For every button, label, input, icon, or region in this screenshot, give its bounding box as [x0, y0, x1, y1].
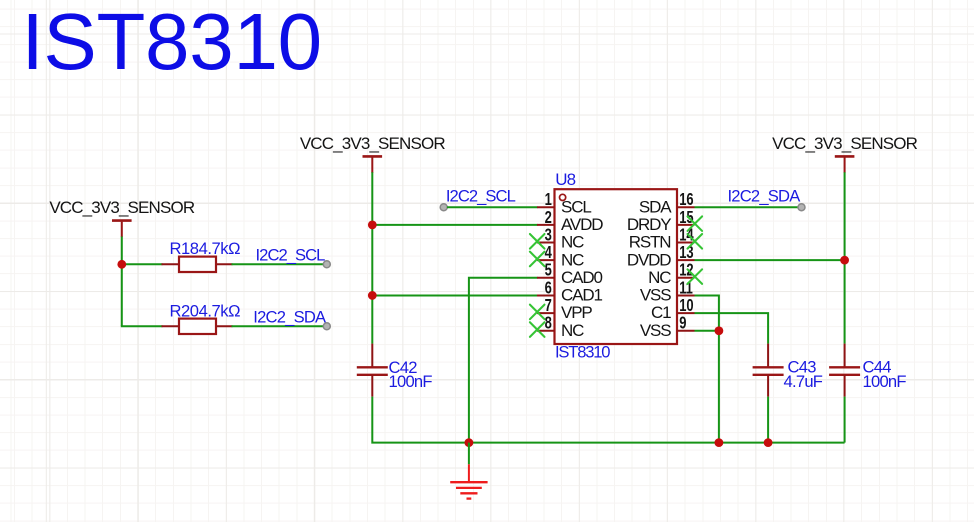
no-connect X at left pin 3: [530, 234, 545, 249]
svg-text:15: 15: [679, 208, 694, 228]
svg-text:RSTN: RSTN: [629, 233, 671, 252]
wire corner to R20 left lead: [121, 325, 163, 327]
unconnected pin dot I2C2_SDA (left): [323, 323, 330, 330]
svg-text:2: 2: [545, 208, 552, 228]
unconnected pin dot I2C2_SCL (left): [323, 261, 330, 268]
svg-text:I2C2_SDA: I2C2_SDA: [728, 187, 802, 206]
no-connect X at right pin 14: [688, 234, 703, 249]
pin 6 (CAD1) left stub: [537, 294, 555, 296]
svg-text:R204.7kΩ: R204.7kΩ: [170, 301, 241, 320]
svg-text:R184.7kΩ: R184.7kΩ: [170, 239, 241, 258]
pin 7 (VPP) left stub: [537, 312, 555, 314]
resistor R18 4.7k: [162, 257, 233, 272]
pin 8 (NC) left stub: [537, 330, 555, 332]
svg-text:AVDD: AVDD: [561, 215, 603, 234]
junction VSS pin9: [715, 326, 724, 335]
op-amp/ic U8 IST8310 body: [555, 189, 678, 344]
svg-text:100nF: 100nF: [389, 372, 433, 391]
svg-text:VCC_3V3_SENSOR: VCC_3V3_SENSOR: [772, 134, 918, 153]
svg-text:C1: C1: [651, 303, 671, 322]
svg-text:VSS: VSS: [640, 286, 671, 305]
svg-text:NC: NC: [648, 268, 671, 287]
svg-text:SDA: SDA: [639, 197, 672, 216]
wire pin9 VSS to pin11 vertical: [695, 330, 719, 332]
svg-text:100nF: 100nF: [863, 372, 907, 391]
wire VCC middle vertical down to C42: [371, 172, 373, 343]
junction ground rail / CAD0 / GND: [465, 438, 474, 447]
power flag VCC_3V3_SENSOR (right): [772, 134, 918, 173]
ground: [450, 443, 487, 499]
svg-text:7: 7: [545, 296, 552, 316]
wire pin2 AVDD from VCC vertical: [372, 224, 537, 226]
wire C44 bottom to ground rail corner: [844, 397, 846, 443]
wire R20 to I2C2_SDA stub: [232, 325, 325, 327]
resistor R20 4.7k: [162, 319, 233, 334]
pin 15 (DRDY) right stub: [677, 224, 695, 226]
svg-text:I2C2_SCL: I2C2_SCL: [446, 187, 516, 206]
wire R18 to I2C2_SCL stub: [232, 263, 325, 265]
svg-text:IST8310: IST8310: [22, 0, 322, 86]
pin 10 (C1) right stub: [677, 312, 695, 314]
junction VCC/CAD1: [368, 291, 377, 300]
no-connect X at left pin 8: [530, 322, 545, 337]
wire pin6 CAD1 from VCC vertical: [372, 294, 537, 296]
pin 14 (RSTN) right stub: [677, 242, 695, 244]
wire junction to R18 left lead: [122, 263, 163, 265]
svg-text:I2C2_SCL: I2C2_SCL: [256, 245, 326, 264]
svg-text:4.7uF: 4.7uF: [784, 372, 823, 391]
wire VCC right vertical down to C44: [844, 172, 846, 343]
no-connect X at right pin 12: [688, 269, 703, 284]
svg-text:5: 5: [545, 261, 552, 281]
pin 5 (CAD0) left stub: [537, 277, 555, 279]
capacitor C43 4.7uF: [753, 344, 784, 397]
pin 2 (AVDD) left stub: [537, 224, 555, 226]
capacitor C44 100nF: [829, 344, 860, 397]
svg-text:6: 6: [545, 278, 552, 298]
no-connect X at left pin 4: [530, 252, 545, 267]
svg-text:10: 10: [679, 296, 694, 316]
unconnected pin dot I2C2_SDA (at pin 16): [798, 204, 805, 211]
svg-text:DRDY: DRDY: [627, 215, 671, 234]
pin 16 (SDA) right stub: [677, 206, 695, 208]
svg-text:DVDD: DVDD: [627, 250, 671, 269]
pin 4 (NC) left stub: [537, 259, 555, 261]
svg-text:14: 14: [679, 225, 694, 245]
svg-text:1: 1: [545, 190, 552, 210]
wire pin11 VSS down to ground rail: [695, 295, 719, 442]
svg-text:16: 16: [679, 190, 694, 210]
svg-text:9: 9: [679, 314, 686, 334]
wire pin1 SCL: [447, 206, 538, 208]
svg-text:NC: NC: [561, 321, 584, 340]
svg-text:13: 13: [679, 243, 694, 263]
wire CAD0 vertical: [469, 278, 538, 443]
unconnected pin dot I2C2_SCL (at pin 1): [440, 204, 447, 211]
svg-text:VSS: VSS: [640, 321, 671, 340]
wire pin16 SDA: [695, 206, 799, 208]
svg-text:8: 8: [545, 314, 552, 334]
pin 12 (NC) right stub: [677, 277, 695, 279]
svg-text:VCC_3V3_SENSOR: VCC_3V3_SENSOR: [49, 198, 195, 217]
power flag VCC_3V3_SENSOR (middle): [300, 134, 446, 173]
svg-text:VPP: VPP: [561, 303, 592, 322]
pin 11 (VSS) right stub: [677, 294, 695, 296]
no-connect X at right pin 15: [688, 216, 703, 231]
pin 1 (SCL) left stub: [537, 206, 555, 208]
svg-text:VCC_3V3_SENSOR: VCC_3V3_SENSOR: [300, 134, 446, 153]
svg-text:I2C2_SDA: I2C2_SDA: [253, 307, 327, 326]
wire C42 bottom to ground rail: [372, 397, 469, 443]
capacitor C42 100nF: [357, 344, 388, 397]
pin 9 (VSS) right stub: [677, 330, 695, 332]
wire pin13 DVDD to VCC vertical: [695, 259, 845, 261]
junction VSS vertical / ground rail: [715, 438, 724, 447]
wire pin10 C1 to C43: [695, 313, 769, 344]
svg-text:CAD1: CAD1: [561, 286, 602, 305]
power flag VCC_3V3_SENSOR (left): [49, 198, 195, 237]
svg-text:U8: U8: [555, 170, 575, 189]
svg-text:IST8310: IST8310: [555, 342, 610, 361]
svg-text:CAD0: CAD0: [561, 268, 602, 287]
junction VCC/AVDD: [368, 220, 377, 229]
wire ground rail bottom: [469, 442, 845, 444]
wire C43 bottom to ground rail: [767, 397, 769, 443]
svg-text:4: 4: [545, 243, 552, 263]
svg-text:NC: NC: [561, 250, 584, 269]
svg-text:12: 12: [679, 261, 694, 281]
pin 13 (DVDD) right stub: [677, 259, 695, 261]
wire VCC left vertical to R18/R20: [121, 237, 123, 327]
junction C43 / ground rail: [764, 438, 773, 447]
junction at VCC/R18: [117, 260, 126, 269]
svg-text:SCL: SCL: [561, 197, 591, 216]
junction DVDD/VCC: [840, 256, 849, 265]
pin 3 (NC) left stub: [537, 242, 555, 244]
svg-text:NC: NC: [561, 233, 584, 252]
no-connect X at left pin 7: [530, 305, 545, 320]
svg-text:3: 3: [545, 225, 552, 245]
